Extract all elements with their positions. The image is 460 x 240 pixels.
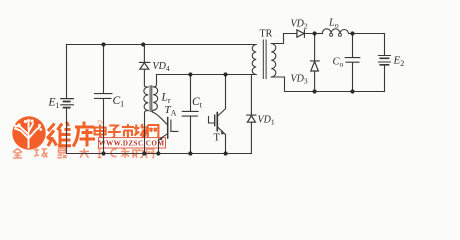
transformer TA core <box>150 86 152 112</box>
node Ct bottom <box>188 151 192 155</box>
transistor T main bar <box>216 113 218 131</box>
transistor T gate lead <box>209 117 214 124</box>
wire E2 bottom <box>384 65 386 91</box>
diode VD2 <box>297 30 304 37</box>
watermark 网 <box>148 125 159 138</box>
wire to Lo <box>315 33 323 35</box>
watermark 电 <box>95 125 107 139</box>
battery E1 <box>61 99 74 108</box>
svg-text:WWW.DZSC.COM: WWW.DZSC.COM <box>98 140 164 148</box>
transistor T gate bar <box>214 115 216 125</box>
transistor V emitter <box>159 134 168 154</box>
battery E2 <box>378 56 390 65</box>
svg-text:TR: TR <box>260 29 273 40</box>
transformer TA right winding <box>152 75 157 113</box>
capacitor Co <box>345 34 360 92</box>
capacitor C1 <box>95 45 112 154</box>
svg-text:T: T <box>214 133 221 144</box>
node T collector top <box>223 72 227 76</box>
watermark 市 <box>122 124 134 138</box>
capacitor Ct <box>182 75 198 154</box>
wire inner rail <box>157 74 250 76</box>
wire bottom rail <box>67 153 252 155</box>
node C1 top <box>101 42 105 46</box>
watermark 维 <box>47 122 71 146</box>
node VD3 bottom <box>313 89 317 93</box>
inductor Lo <box>322 29 348 34</box>
node T emitter bottom <box>224 151 228 155</box>
wire secondary top <box>271 34 297 44</box>
transistor T emitter <box>217 127 225 154</box>
wire secondary bottom rail <box>271 77 384 92</box>
transistor V (driver) collector lead <box>152 112 167 124</box>
watermark 场 <box>134 124 148 137</box>
node Ct top <box>188 72 192 76</box>
diode VD1 <box>247 75 256 154</box>
node Co bottom <box>350 89 354 93</box>
watermark www.dzsc.com box <box>98 138 165 148</box>
watermark 子 <box>108 126 121 138</box>
wire left rail E1 top <box>66 45 68 99</box>
node TA bottom <box>142 151 146 155</box>
watermark 库 <box>73 122 95 147</box>
diode VD3 <box>310 34 319 92</box>
transistor V gate L <box>171 120 178 131</box>
transformer TA left winding Lr <box>144 86 149 154</box>
node Lo out <box>350 31 354 35</box>
transformer TR core <box>263 40 266 79</box>
node VD2 cathode <box>313 31 317 35</box>
wire left rail E1 bottom <box>66 108 68 154</box>
transformer TR primary <box>250 45 256 75</box>
transistor T collector <box>217 75 225 117</box>
transistor V main bar <box>167 118 169 139</box>
node VD4 top <box>141 42 145 46</box>
diode VD4 <box>139 45 150 86</box>
transformer TR secondary <box>271 44 276 78</box>
wire top rail <box>67 44 257 46</box>
node V emitter bottom <box>156 151 160 155</box>
watermark logo disc <box>12 116 45 149</box>
watermark bottom row 全球最大IC采购网 <box>13 148 154 158</box>
wire Lo to E2 <box>349 34 385 56</box>
node C1 bottom <box>101 151 105 155</box>
